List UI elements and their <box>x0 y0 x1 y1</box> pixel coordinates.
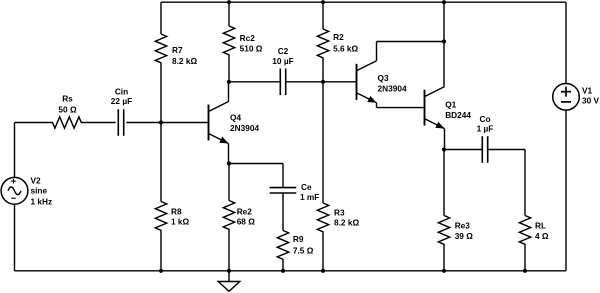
wire Ce branch down <box>282 164 284 188</box>
wire Q4 collector up <box>228 82 230 102</box>
svg-text:7.5 Ω: 7.5 Ω <box>293 245 314 255</box>
transistor Q4 2N3904 <box>209 102 229 144</box>
wire Re2 to bottom rail <box>228 231 230 271</box>
svg-text:R9: R9 <box>293 234 304 244</box>
svg-text:68 Ω: 68 Ω <box>237 216 256 226</box>
wire Q3 emitter to Q1 base <box>377 107 425 109</box>
label Rc2 510 ohm <box>240 33 263 54</box>
wire Rc2 to collector node <box>228 56 230 82</box>
node R2 R3 divider <box>321 80 325 84</box>
resistor RL <box>519 216 530 246</box>
svg-text:50 Ω: 50 Ω <box>58 104 77 114</box>
wire collector node to C2 <box>229 81 280 83</box>
capacitor Cin <box>117 109 119 136</box>
wire V2 to input row <box>14 123 16 178</box>
wire top supply rail <box>161 1 566 3</box>
wire emitter node to Re3 <box>443 150 445 216</box>
source V2 sine 1 kHz <box>1 177 28 204</box>
svg-text:Rc2: Rc2 <box>240 33 256 43</box>
svg-text:39 Ω: 39 Ω <box>455 231 474 241</box>
wire Q3 collector up <box>376 42 378 61</box>
wire bottom ground rail <box>15 270 567 272</box>
svg-text:8.2 kΩ: 8.2 kΩ <box>334 218 359 228</box>
wire R2 to divider node <box>322 59 324 82</box>
resistor Rs <box>53 117 83 128</box>
svg-text:2N3904: 2N3904 <box>230 123 259 133</box>
label RL 4 ohm <box>535 220 549 241</box>
resistor Rc2 <box>223 26 234 56</box>
capacitor C2 <box>279 69 281 96</box>
svg-text:1 µF: 1 µF <box>477 124 494 134</box>
node Q3 collector junction <box>442 39 446 43</box>
node R8 bottom <box>159 269 163 273</box>
node input junction <box>159 120 163 124</box>
wire emitter node to Re2 <box>228 164 230 201</box>
wire Ce to R9 <box>282 193 284 231</box>
node R3 bottom <box>321 269 325 273</box>
node Q1 emitter <box>442 147 446 151</box>
svg-text:10 µF: 10 µF <box>272 56 293 66</box>
svg-text:2N3904: 2N3904 <box>378 84 407 94</box>
resistor R2 <box>317 29 328 59</box>
ground <box>218 271 240 292</box>
wire V2 to Rs <box>15 122 54 124</box>
label V1 30 V <box>582 85 600 105</box>
node Q4 emitter <box>227 161 231 165</box>
resistor R3 <box>317 203 328 233</box>
label C2 10 uF <box>272 46 293 66</box>
transistor Q1 BD244 <box>425 87 445 129</box>
wire Q1 emitter down <box>444 129 446 150</box>
node RL bottom <box>523 269 527 273</box>
label Q4 2N3904 <box>230 113 259 134</box>
svg-text:5.6 kΩ: 5.6 kΩ <box>333 44 358 54</box>
wire R3 to bottom rail <box>322 233 324 271</box>
node R9 bottom <box>281 269 285 273</box>
svg-text:22 µF: 22 µF <box>111 96 132 106</box>
wire top rail to Rc2 <box>228 2 230 26</box>
label R2 5.6 kohm <box>333 32 358 54</box>
label R8 1 kohm <box>171 206 190 226</box>
wire Co to RL <box>488 149 525 151</box>
wire R9 to bottom rail <box>282 261 284 271</box>
wire Rs to Cin <box>83 122 116 124</box>
label Ce 1 mF <box>300 182 319 202</box>
svg-text:Re3: Re3 <box>455 220 471 230</box>
label R7 8.2 kohm <box>172 45 197 66</box>
wire divider node to R3 <box>322 82 324 203</box>
svg-text:C2: C2 <box>278 46 289 56</box>
svg-text:8.2 kΩ: 8.2 kΩ <box>172 56 197 66</box>
label Q3 2N3904 <box>378 73 407 94</box>
label Q1 BD244 <box>445 100 471 120</box>
wire RL branch down <box>524 150 526 216</box>
resistor R8 <box>155 202 166 232</box>
node top rail collector branch <box>442 0 446 4</box>
wire Q3 collector to supply branch <box>377 41 445 43</box>
node Q4 collector <box>227 80 231 84</box>
wire top rail to collector junction <box>443 2 445 41</box>
wire Q1 emitter to Co <box>444 149 482 151</box>
node top rail Rc2 <box>227 0 231 4</box>
wire R7 to input row <box>160 64 162 123</box>
svg-text:R3: R3 <box>334 208 345 218</box>
svg-text:BD244: BD244 <box>445 110 471 120</box>
svg-text:Q3: Q3 <box>378 73 389 83</box>
wire emitter node to Ce branch <box>229 163 283 165</box>
label R9 7.5 ohm <box>293 234 314 255</box>
svg-text:Co: Co <box>479 114 490 124</box>
svg-text:RL: RL <box>535 220 546 230</box>
label Re3 39 ohm <box>455 220 474 241</box>
svg-text:R2: R2 <box>333 32 344 42</box>
resistor R7 <box>155 34 166 64</box>
svg-text:1 kHz: 1 kHz <box>31 196 53 206</box>
node Re2 bottom / ground tap <box>227 269 231 273</box>
wire top rail to V1 <box>565 2 567 83</box>
wire V2 bottom <box>14 204 16 271</box>
wire Re3 to bottom rail <box>443 246 445 271</box>
wire V1 to bottom rail <box>565 110 567 271</box>
capacitor Ce <box>270 187 297 189</box>
resistor Re2 <box>223 201 234 231</box>
wire RL to bottom rail <box>524 246 526 271</box>
svg-text:1 kΩ: 1 kΩ <box>171 217 190 227</box>
capacitor Co <box>481 136 483 163</box>
wire C2 to Q3 base <box>286 81 357 83</box>
svg-text:Q1: Q1 <box>445 100 456 110</box>
wire Cin to Q4 base <box>126 122 208 124</box>
svg-text:30 V: 30 V <box>582 96 600 106</box>
wire top rail to R2 <box>322 2 324 29</box>
label Rs 50 ohm <box>58 94 77 115</box>
node top rail R2 <box>321 0 325 4</box>
svg-text:V2: V2 <box>31 176 42 186</box>
wire R8 to bottom rail <box>160 232 162 271</box>
svg-text:Re2: Re2 <box>237 206 253 216</box>
svg-text:R8: R8 <box>171 206 182 216</box>
label V2 sine 1 kHz <box>31 176 53 207</box>
label Re2 68 ohm <box>237 206 256 226</box>
wire Q3 emitter down <box>376 103 378 108</box>
transistor Q3 2N3904 <box>357 61 377 103</box>
source V1 30 V <box>553 84 580 111</box>
node Re3 bottom <box>442 269 446 273</box>
wire collector junction to Q1 collector <box>443 42 445 87</box>
resistor R9 <box>277 231 288 261</box>
svg-text:Rs: Rs <box>62 94 73 104</box>
svg-text:510 Ω: 510 Ω <box>240 44 263 54</box>
svg-text:R7: R7 <box>172 45 183 55</box>
svg-text:1 mF: 1 mF <box>300 192 319 202</box>
wire Q4 emitter down <box>228 144 230 164</box>
svg-text:Ce: Ce <box>301 182 312 192</box>
svg-text:4 Ω: 4 Ω <box>535 231 549 241</box>
svg-text:Cin: Cin <box>115 87 128 97</box>
label R3 8.2 kohm <box>334 208 359 228</box>
label Cin 22 uF <box>111 87 132 107</box>
label Co 1 uF <box>477 114 494 134</box>
wire input row to R8 <box>160 123 162 202</box>
resistor Re3 <box>438 216 449 246</box>
svg-text:sine: sine <box>31 185 48 195</box>
svg-text:V1: V1 <box>582 85 593 95</box>
svg-text:Q4: Q4 <box>230 113 241 123</box>
wire top rail to R7 <box>160 2 162 34</box>
